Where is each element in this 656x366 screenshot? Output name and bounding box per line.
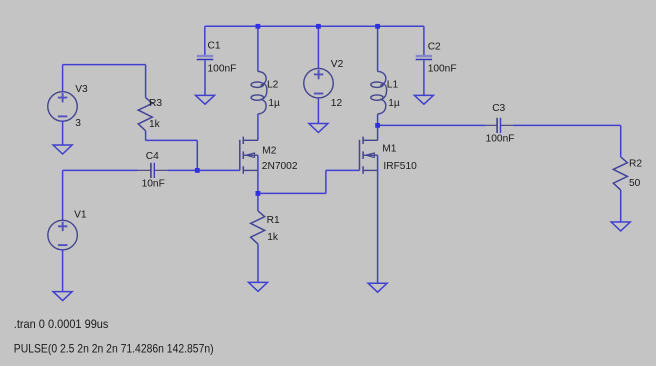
resistor R1 bbox=[251, 211, 265, 244]
wire R2 bottom bbox=[620, 190, 622, 222]
wire V1 top drop bbox=[62, 170, 64, 220]
wire C1 top stub bbox=[204, 26, 206, 55]
ground C1 bbox=[196, 95, 215, 104]
wire V3 to R3 bbox=[63, 64, 146, 66]
node dot C4-R3 bbox=[195, 168, 200, 173]
wire C3 left bbox=[378, 124, 486, 126]
wire V1 to C4 bbox=[63, 169, 138, 171]
inductor L1 bbox=[371, 71, 387, 114]
wire V2 bottom bbox=[317, 98, 319, 124]
node dot rail-V2 bbox=[316, 24, 321, 29]
wire L1 top stub bbox=[377, 26, 379, 71]
svg-text:C1: C1 bbox=[208, 41, 221, 52]
ground R2 bbox=[611, 222, 630, 231]
svg-text:100nF: 100nF bbox=[208, 63, 237, 74]
ground V1 bbox=[53, 292, 72, 301]
transistor M1 bbox=[360, 137, 378, 174]
inductor L2 bbox=[251, 71, 267, 114]
svg-text:PULSE(0 2.5 2n 2n 2n 71.4286n: PULSE(0 2.5 2n 2n 2n 71.4286n 142.857n) bbox=[14, 341, 214, 355]
resistor R2 bbox=[613, 157, 627, 190]
wire R3 bottom bbox=[145, 131, 147, 141]
svg-text:V2: V2 bbox=[331, 59, 344, 70]
wire top rail bbox=[205, 25, 424, 27]
svg-text:1µ: 1µ bbox=[388, 98, 400, 109]
ground V2 bbox=[309, 124, 328, 133]
voltage source V2 bbox=[304, 68, 334, 98]
svg-text:V3: V3 bbox=[75, 84, 88, 95]
svg-text:10nF: 10nF bbox=[142, 179, 165, 190]
wire R1 bottom bbox=[257, 244, 259, 282]
voltage source V1 bbox=[48, 220, 78, 250]
svg-text:R2: R2 bbox=[629, 159, 642, 170]
wire C2 bottom bbox=[423, 60, 425, 95]
wire L1 bottom to node bbox=[377, 114, 379, 126]
wire node drop bbox=[196, 140, 198, 170]
wire M1 source down bbox=[377, 155, 379, 283]
ground V3 bbox=[53, 145, 72, 154]
node dot rail-L1 bbox=[375, 24, 380, 29]
resistor R3 bbox=[138, 98, 152, 131]
ground M1 bbox=[368, 283, 387, 292]
wire M2 source down bbox=[257, 155, 259, 211]
svg-text:1µ: 1µ bbox=[268, 98, 280, 109]
svg-text:IRF510: IRF510 bbox=[383, 161, 417, 172]
wire up step bbox=[325, 170, 327, 193]
svg-text:R1: R1 bbox=[267, 215, 280, 226]
transistor M2 bbox=[240, 137, 258, 174]
svg-text:M1: M1 bbox=[382, 144, 396, 155]
svg-text:100nF: 100nF bbox=[428, 64, 457, 75]
wire V3 top stub bbox=[62, 65, 64, 92]
capacitor C4 bbox=[138, 163, 168, 178]
svg-text:R3: R3 bbox=[149, 98, 162, 109]
ground C2 bbox=[414, 95, 433, 104]
wire L2 top stub bbox=[257, 26, 259, 71]
node dot L1-C3 bbox=[375, 123, 380, 128]
wire M2 source to right bbox=[258, 192, 326, 194]
voltage source V3 bbox=[48, 92, 78, 122]
svg-text:L2: L2 bbox=[267, 79, 279, 90]
wire C3 right bbox=[514, 124, 621, 126]
wire C4 to M2 gate bbox=[168, 169, 240, 171]
svg-text:L1: L1 bbox=[387, 79, 399, 90]
wire V1 bottom bbox=[62, 250, 64, 292]
wire R3 to node bbox=[146, 139, 198, 141]
wire L2 bottom to M2 drain bbox=[257, 114, 259, 140]
svg-text:100nF: 100nF bbox=[486, 134, 515, 145]
svg-text:C2: C2 bbox=[428, 42, 441, 53]
svg-text:50: 50 bbox=[629, 178, 641, 189]
wire to M1 gate bbox=[326, 169, 360, 171]
svg-text:C4: C4 bbox=[146, 151, 159, 162]
svg-text:12: 12 bbox=[331, 98, 343, 109]
capacitor C1 bbox=[197, 56, 213, 59]
svg-text:1k: 1k bbox=[267, 232, 279, 243]
capacitor C2 bbox=[416, 56, 432, 59]
wire C1 bottom bbox=[204, 60, 206, 95]
svg-text:2N7002: 2N7002 bbox=[262, 161, 298, 172]
node dot rail-L2 bbox=[256, 24, 261, 29]
capacitor C3 bbox=[486, 118, 514, 133]
wire V3 bottom bbox=[62, 121, 64, 145]
svg-text:M2: M2 bbox=[262, 145, 276, 156]
svg-text:C3: C3 bbox=[492, 103, 505, 114]
wire R2 top bbox=[620, 125, 622, 156]
svg-text:1k: 1k bbox=[149, 119, 161, 130]
ground R1 bbox=[249, 282, 268, 291]
wire M1 drain drop bbox=[377, 125, 379, 140]
svg-text:3: 3 bbox=[75, 118, 81, 129]
svg-text:V1: V1 bbox=[74, 210, 87, 221]
wire R3 top bbox=[145, 65, 147, 98]
svg-text:.tran 0 0.0001 99us: .tran 0 0.0001 99us bbox=[14, 317, 109, 331]
node dot M2-R1 bbox=[256, 191, 261, 196]
wire C2 top stub bbox=[423, 26, 425, 55]
wire V2 top stub bbox=[317, 26, 319, 68]
